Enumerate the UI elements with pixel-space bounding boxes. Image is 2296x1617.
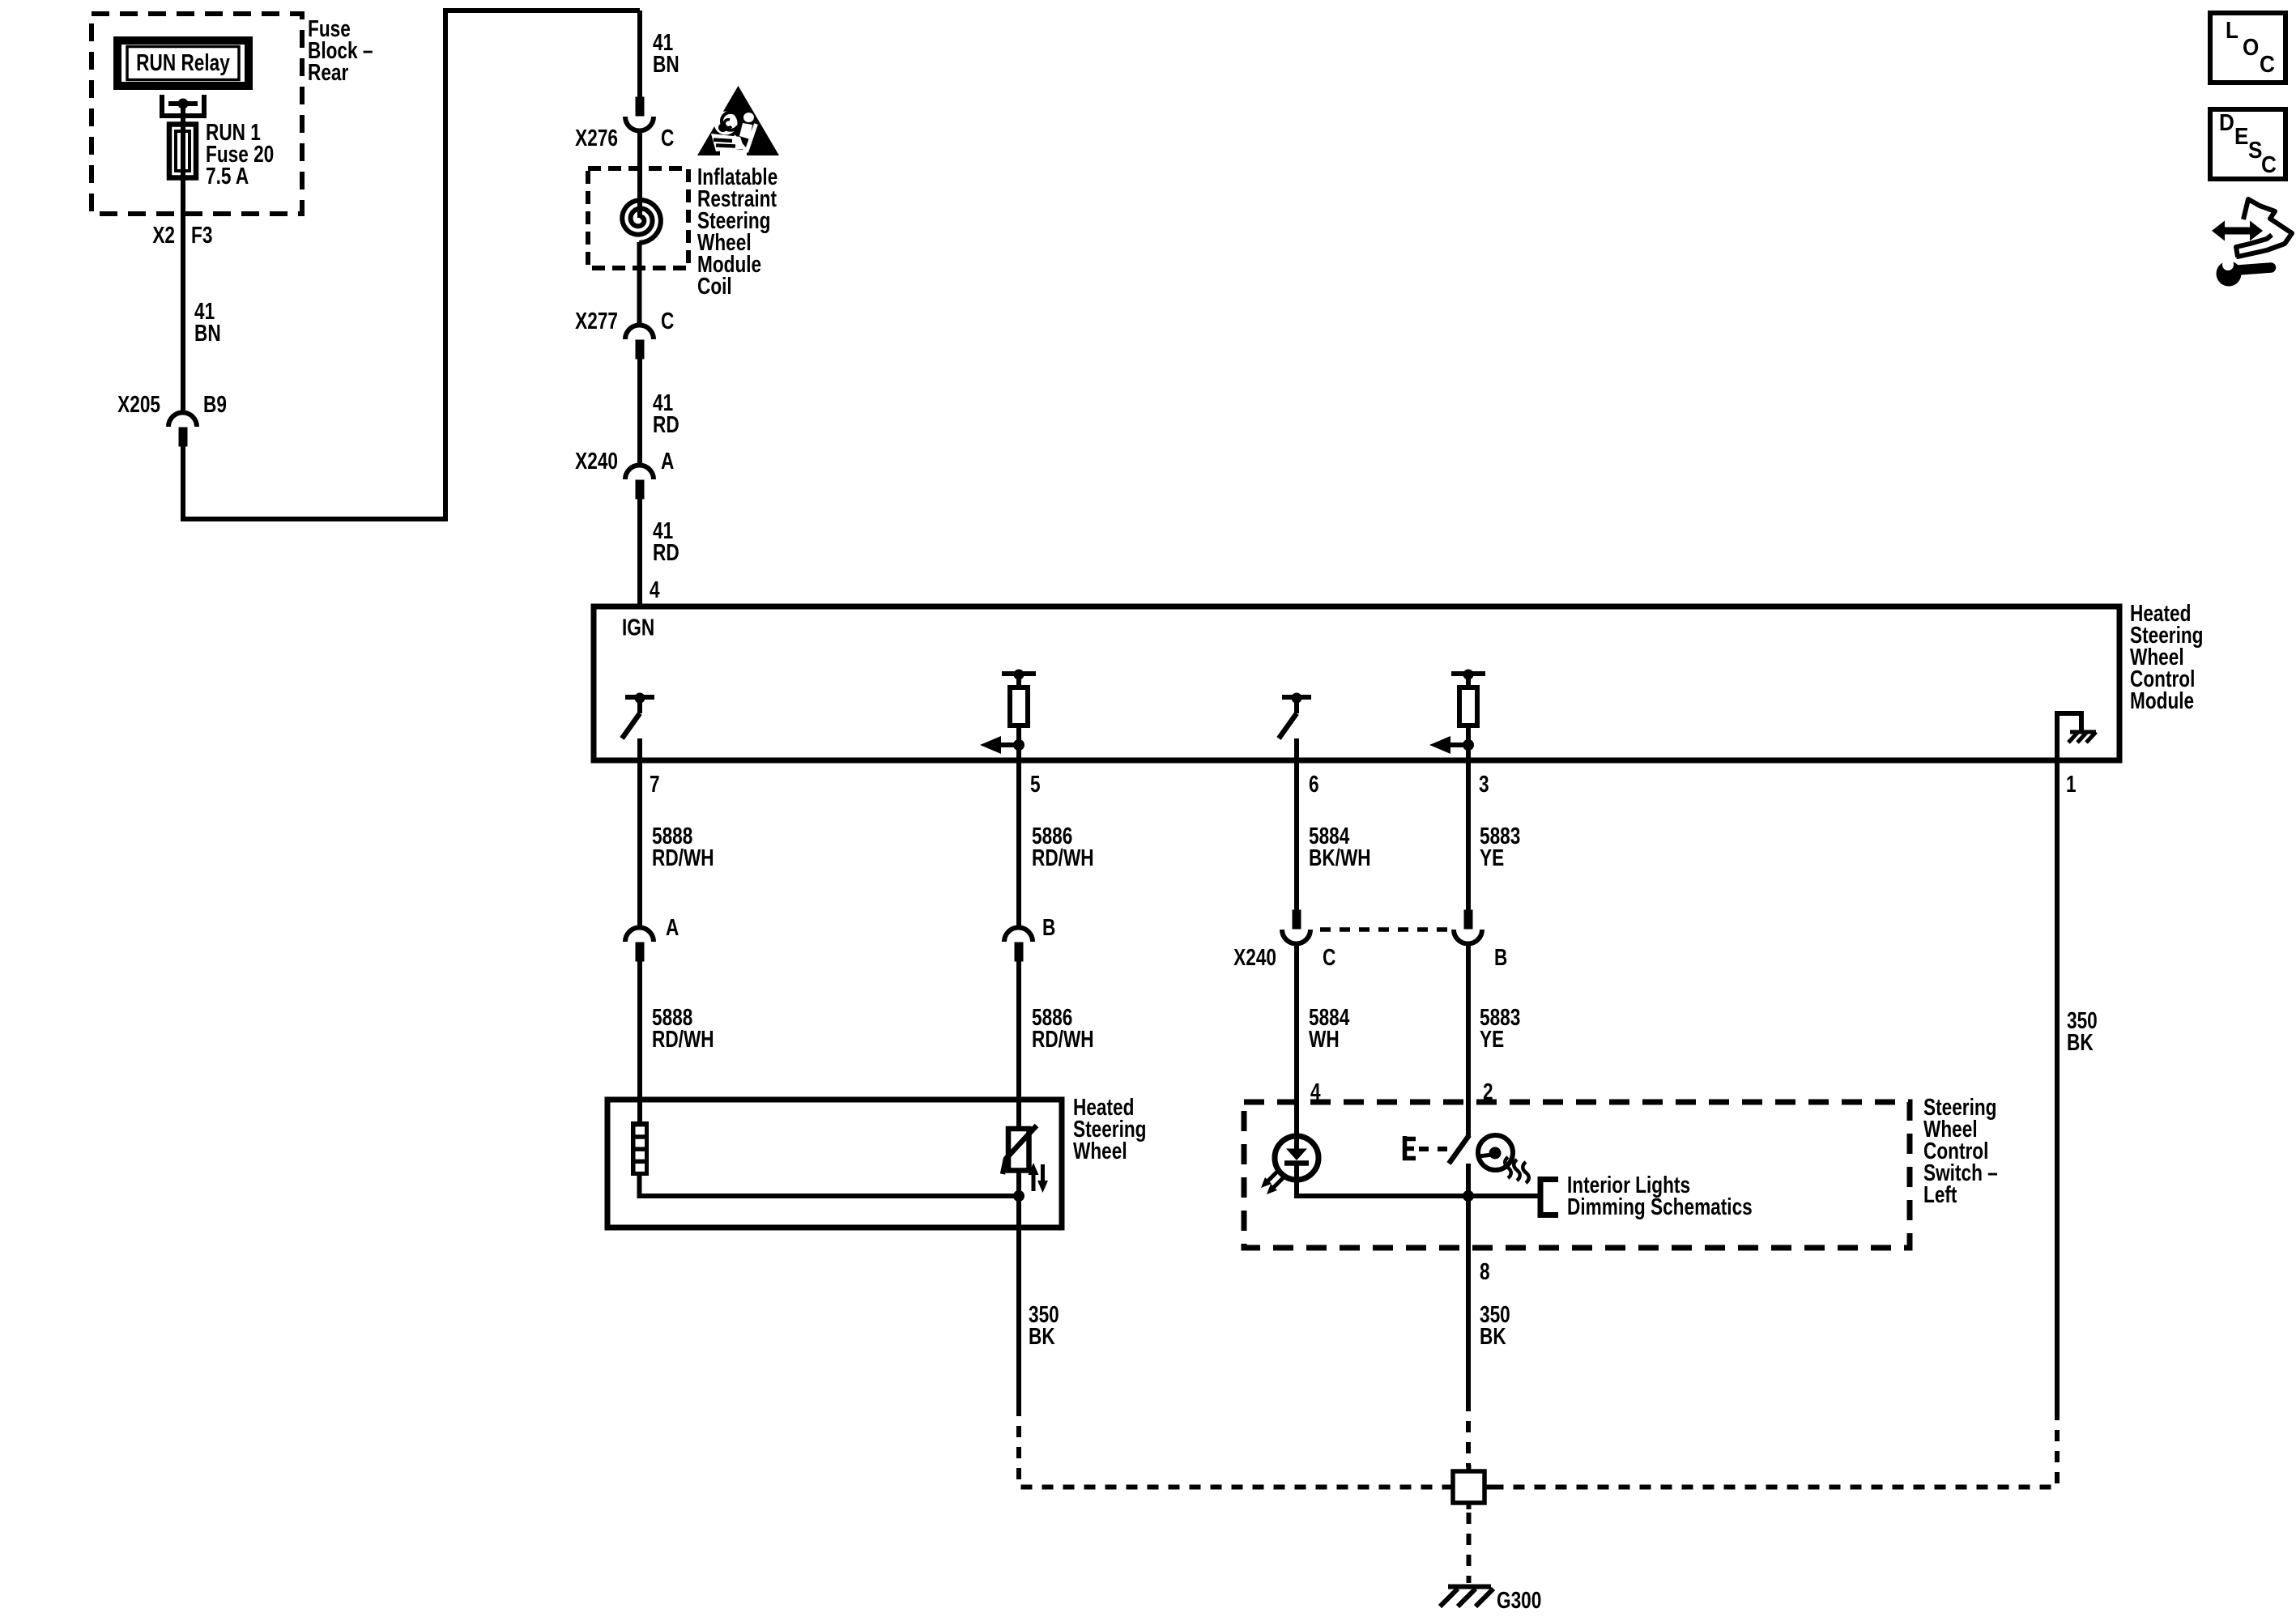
svg-text:X205: X205: [117, 390, 160, 417]
thermistor: [1003, 1126, 1048, 1193]
wire 5886 RD/WH (B to heated wheel): [1016, 961, 1021, 1134]
svg-text:A: A: [661, 447, 675, 474]
wire 5888 RD/WH (pin 7 to A): [637, 766, 642, 929]
dashed link between X240 C and B: [1320, 927, 1454, 932]
svg-text:RUN Relay: RUN Relay: [136, 49, 230, 75]
svg-text:BN: BN: [653, 50, 679, 77]
dashed wire from heated wheel to splice: [1019, 1405, 1449, 1487]
wire 41 BN (top): [637, 11, 642, 98]
mechanical link E bracket: [1403, 1136, 1449, 1160]
wire from LED to junction 8: [1297, 1177, 1538, 1196]
connector X240 A (dome + pin): [625, 466, 654, 480]
svg-text:4: 4: [650, 576, 660, 602]
internal resistor with arrow (pin 3): [1429, 670, 1485, 770]
RUN Relay box: [117, 40, 249, 86]
svg-text:D: D: [2219, 109, 2234, 136]
svg-text:RD/WH: RD/WH: [652, 844, 714, 870]
svg-text:C: C: [1323, 943, 1336, 970]
heated steering wheel control module box: [594, 606, 2119, 760]
svg-text:Dimming Schematics: Dimming Schematics: [1567, 1193, 1753, 1219]
wire from relay through fuse down to X205: [181, 104, 185, 413]
svg-text:C: C: [2261, 151, 2277, 178]
wire 5883 YE (B to switch): [1466, 943, 1471, 1137]
internal ground (pin 1): [2057, 713, 2096, 766]
heater indicator circle with heat waves: [1478, 1135, 1529, 1183]
svg-text:YE: YE: [1480, 1025, 1504, 1052]
connector B (dome + pin): [1004, 928, 1033, 943]
svg-text:Wheel: Wheel: [1073, 1137, 1127, 1164]
connector X277 C (dome + pin): [625, 326, 654, 340]
fuse block - rear (dashed box): [92, 14, 302, 214]
fuse RUN 1 Fuse 20 7.5A: [169, 125, 196, 178]
svg-text:BN: BN: [194, 319, 221, 346]
svg-text:O: O: [2243, 34, 2259, 61]
dashed wire 8 to splice: [1466, 1400, 1471, 1467]
DESC icon box: [2210, 109, 2285, 179]
svg-text:C: C: [661, 307, 675, 334]
svg-text:RD/WH: RD/WH: [652, 1025, 714, 1052]
SRS warning triangle icon: [697, 86, 779, 155]
connector X276 C (pin + cup): [636, 97, 645, 117]
splice square: [1445, 1465, 1493, 1509]
svg-text:3: 3: [1479, 770, 1489, 797]
wire 41 RD: [637, 359, 642, 466]
svg-text:BK: BK: [1029, 1322, 1055, 1349]
dashed wire from pin1 down and left to splice: [2055, 766, 2060, 1409]
svg-text:L: L: [2226, 17, 2238, 44]
heater element: [631, 1121, 649, 1176]
svg-text:7.5 A: 7.5 A: [206, 162, 249, 189]
svg-text:1: 1: [2066, 770, 2077, 797]
svg-text:A: A: [666, 913, 679, 940]
svg-text:Rear: Rear: [308, 58, 348, 85]
internal switch (pin 6): [1279, 693, 1311, 770]
svg-text:X2: X2: [152, 221, 175, 248]
svg-text:Left: Left: [1923, 1181, 1957, 1207]
junction dot: [1013, 1190, 1024, 1202]
heated steering wheel box: [607, 1100, 1062, 1228]
connector X205 B9 (dome + pin): [168, 413, 197, 428]
wire 5888 RD/WH (A to heated wheel): [637, 961, 642, 1126]
svg-text:6: 6: [1309, 770, 1319, 797]
wire 41 RD to module pin 4: [637, 499, 642, 609]
internal resistor with arrow (pin 5): [980, 670, 1036, 770]
connector X240 C (pin + cup): [1293, 910, 1301, 930]
svg-text:8: 8: [1480, 1257, 1490, 1284]
clockspring coil spiral: [622, 200, 661, 243]
svg-text:RD: RD: [653, 538, 679, 565]
svg-text:X277: X277: [575, 307, 618, 334]
svg-text:C: C: [2260, 51, 2275, 78]
wire from coil to X277: [637, 242, 642, 326]
svg-text:G300: G300: [1497, 1586, 1541, 1613]
wire from switch to junction: [1466, 1164, 1471, 1248]
wire from X205 down, right, up and across the top: [183, 11, 640, 519]
svg-text:X240: X240: [575, 447, 618, 474]
wire 8 / 350 BK: [1466, 1248, 1471, 1400]
svg-text:7: 7: [650, 770, 660, 797]
steering wheel control switch - left (dashed box): [1244, 1102, 1910, 1248]
svg-text:S: S: [2248, 137, 2262, 164]
svg-text:C: C: [661, 124, 675, 151]
wire into coil: [637, 130, 642, 218]
junction dot: [1463, 1190, 1474, 1202]
svg-text:RD/WH: RD/WH: [1032, 844, 1094, 870]
svg-text:IGN: IGN: [622, 614, 654, 640]
svg-text:B9: B9: [203, 390, 227, 417]
internal switch (pin 7): [622, 693, 654, 770]
wire from element to junction: [640, 1176, 1020, 1196]
wire through thermistor down (350 BK): [1016, 1170, 1021, 1405]
svg-text:WH: WH: [1309, 1025, 1340, 1052]
svg-text:E: E: [2234, 123, 2248, 150]
LED indicator: [1261, 1136, 1318, 1196]
ground G300: [1440, 1587, 1493, 1607]
coil dashed box: [588, 168, 688, 268]
svg-text:RD/WH: RD/WH: [1032, 1025, 1094, 1052]
connector A (dome + pin): [625, 928, 654, 943]
svg-text:X276: X276: [575, 124, 618, 151]
svg-text:YE: YE: [1480, 844, 1504, 870]
wire 5884 WH (C to switch): [1294, 943, 1299, 1150]
switch blade: [1449, 1135, 1469, 1164]
wire 5884 BK/WH (pin 6 to X240 C): [1294, 766, 1299, 911]
connector X240 B (pin + cup): [1464, 910, 1473, 930]
svg-text:BK: BK: [2067, 1028, 2094, 1055]
svg-text:BK/WH: BK/WH: [1309, 844, 1371, 870]
dashed wire splice to G300: [1467, 1513, 1472, 1583]
wire 5883 YE (pin 3 to X240 B): [1466, 766, 1471, 911]
svg-text:5: 5: [1030, 770, 1041, 797]
relay output terminal (cup + contact bar): [162, 95, 204, 116]
svg-text:Coil: Coil: [697, 272, 732, 299]
wire 5886 RD/WH (pin 5 to B): [1016, 766, 1021, 929]
LOC icon box: [2210, 13, 2285, 83]
svg-text:BK: BK: [1480, 1322, 1506, 1349]
schematic reference icon (arrows + wrench): [2212, 199, 2292, 287]
svg-text:RD: RD: [653, 411, 679, 437]
svg-text:Module: Module: [2130, 687, 2194, 713]
off-page connector bracket: [1540, 1180, 1558, 1215]
svg-text:F3: F3: [191, 221, 212, 248]
svg-text:B: B: [1042, 913, 1055, 940]
svg-text:B: B: [1494, 943, 1507, 970]
svg-text:X240: X240: [1233, 943, 1276, 970]
